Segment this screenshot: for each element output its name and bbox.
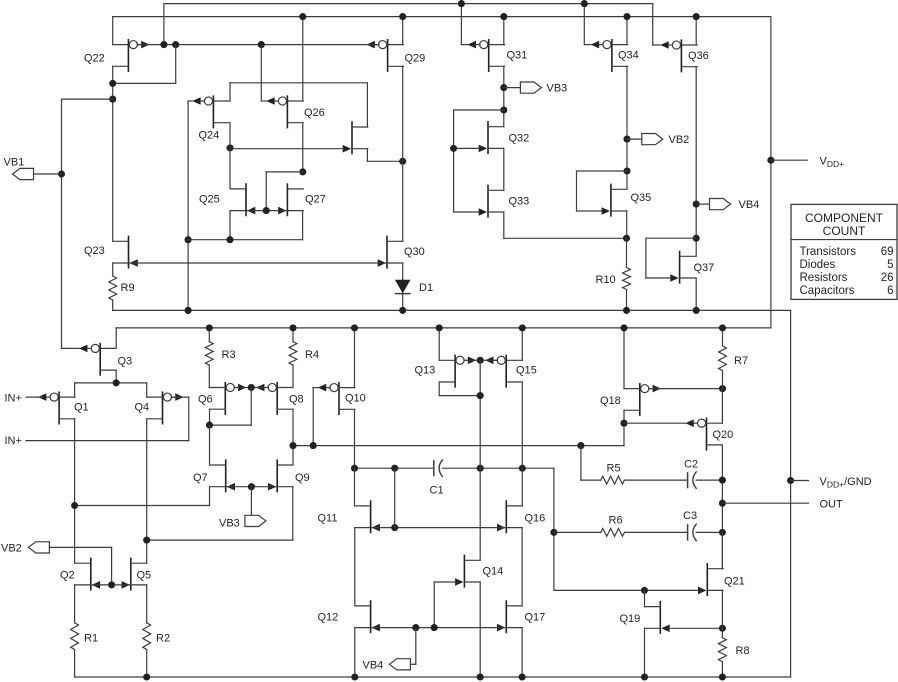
node VB2 tap <box>623 136 630 143</box>
svg-text:Q26: Q26 <box>304 107 325 119</box>
wire Q2-Q5 gate link <box>92 584 130 586</box>
wire Q20 source drop <box>721 445 723 569</box>
terminal VB3 (bottom) <box>245 515 266 526</box>
node Q10 source / C1 row <box>351 465 358 472</box>
node Q14 source / rail <box>477 673 484 680</box>
wire Q35 gate loop top <box>577 170 628 172</box>
node Q37 source / rail <box>693 307 700 314</box>
transistor Q14 <box>455 555 480 586</box>
node VB4 tap <box>693 201 700 208</box>
resistor R2 <box>143 623 151 650</box>
wire Q1 drain column <box>74 419 76 563</box>
node R6 branch <box>550 529 557 536</box>
wire VSS right column <box>790 310 792 677</box>
wire R10 top <box>626 238 628 267</box>
svg-text:R9: R9 <box>121 282 135 294</box>
wire Q35 gate loop vertical <box>576 171 578 211</box>
node Q37 gate branch <box>693 235 700 242</box>
wire Q18 gate line <box>649 388 723 390</box>
wire OUT lead <box>722 502 808 504</box>
svg-text:Q32: Q32 <box>509 133 530 145</box>
node Q22 drain loop tap <box>109 80 116 87</box>
transistor Q36 <box>660 40 697 71</box>
wire Q26 gate riser <box>260 45 262 101</box>
wire Q13 source run <box>439 395 480 397</box>
svg-text:26: 26 <box>881 272 894 284</box>
wire Q18 source riser <box>623 328 625 389</box>
capacitor C2 <box>688 472 697 488</box>
wire C2 to column <box>696 479 722 481</box>
svg-text:5: 5 <box>887 259 893 271</box>
svg-text:Q22: Q22 <box>84 53 105 65</box>
svg-text:Q17: Q17 <box>525 612 546 624</box>
wire Q36 source column <box>695 67 697 257</box>
wire Q37 gate line <box>646 277 671 279</box>
svg-text:R7: R7 <box>734 355 748 367</box>
wire VB2 lead <box>627 138 642 140</box>
node C1 row / Q15 column <box>519 465 526 472</box>
node VDD+/GND tap <box>787 477 794 484</box>
wire C1 row left <box>355 467 434 469</box>
svg-text:R3: R3 <box>222 349 236 361</box>
wire Q11 source drop <box>354 528 356 606</box>
svg-text:Q34: Q34 <box>618 50 639 62</box>
svg-text:Q25: Q25 <box>199 194 220 206</box>
svg-text:VB4: VB4 <box>739 199 760 211</box>
wire top gate bus (line1) <box>164 3 653 5</box>
node Q12 source / rail <box>351 673 358 680</box>
svg-text:VDD+/GND: VDD+/GND <box>820 476 872 490</box>
svg-text:Q12: Q12 <box>318 612 339 624</box>
node Q36 drain / line2 <box>693 13 700 20</box>
wire Q26 source drop <box>302 123 304 172</box>
node VB3 tap <box>500 84 507 91</box>
wire VDD bus (line2) <box>113 16 771 18</box>
transistor Q6 <box>210 383 247 414</box>
wire Q6 source drop <box>209 409 211 425</box>
wire Q4 gate stub <box>171 396 188 398</box>
transistor Q20 <box>685 418 722 449</box>
wire Q27 source drop <box>302 211 304 240</box>
wire Q12 source drop <box>354 628 356 677</box>
wire Q9 drain riser <box>292 446 294 465</box>
transistor Q29 <box>366 40 403 71</box>
wire Q7-Q9 gate link <box>227 486 277 488</box>
resistor R4 <box>289 342 297 365</box>
wire R3 to Q6 drain <box>208 365 210 387</box>
transistor Q15 <box>485 355 522 386</box>
wire Q34 gate stub <box>584 44 591 46</box>
svg-text:Q24: Q24 <box>199 130 220 142</box>
wire T1 source to Q29 column <box>367 160 402 162</box>
transistor Q5 <box>122 558 147 589</box>
node Q24 gate / rail already <box>185 307 192 314</box>
wire D1 to rail <box>402 294 404 311</box>
wire VB2 drop <box>111 547 113 585</box>
svg-text:VB2: VB2 <box>1 543 22 555</box>
transistor Q8 <box>256 383 293 414</box>
wire Q25-Q27 gate link <box>247 210 287 212</box>
node C2 / output column <box>719 477 726 484</box>
resistor R10 <box>623 268 631 290</box>
wire Q26 drain riser <box>302 17 304 101</box>
wire Q21 drain riser <box>721 532 723 568</box>
wire Q36 gate stub <box>653 44 661 46</box>
terminal VB4 (right) <box>710 199 731 210</box>
wire Q20 gate line <box>624 422 686 424</box>
node Q15 drain / VDD rail <box>519 324 526 331</box>
node Q10 drain / VDD rail <box>351 324 358 331</box>
transistor Q13 <box>439 355 476 386</box>
svg-text:R2: R2 <box>156 633 170 645</box>
node Q21 source / Q19 gate / R8 <box>719 625 726 632</box>
wire gate-drop to Q6 source <box>210 424 252 426</box>
wire Q25 source drop <box>229 211 231 240</box>
wire Q20 drain riser <box>721 389 723 424</box>
node R3 / VDD rail <box>206 324 213 331</box>
transistor Q32 <box>479 122 504 153</box>
transistor Q24 <box>192 96 229 127</box>
wire Q10 gate corner <box>313 387 318 389</box>
wire Q7 drain riser <box>209 425 211 465</box>
node Q26 drain / line2 <box>299 13 306 20</box>
wire Q11-Q16 gate line <box>372 527 506 529</box>
svg-text:Q5: Q5 <box>137 570 152 582</box>
wire Q37 source drop <box>695 278 697 310</box>
wire R9 to rail <box>112 300 114 310</box>
wire IN+ lead <box>26 396 42 398</box>
svg-text:Q3: Q3 <box>118 356 133 368</box>
svg-text:Q30: Q30 <box>404 246 425 258</box>
wire Q15 source column <box>521 382 523 506</box>
wire Q30 source to D1 <box>402 263 404 280</box>
node Q19 source / rail <box>641 673 648 680</box>
wire Q24-T bridge <box>230 82 367 84</box>
terminal VB1 <box>13 168 34 179</box>
wire Q29 source column <box>402 66 404 241</box>
wire top-block bottom rail <box>113 309 791 311</box>
wire C3 to column <box>696 531 722 533</box>
svg-text:R4: R4 <box>305 349 319 361</box>
svg-text:D1: D1 <box>419 282 433 294</box>
wire Q8 source drop <box>292 409 294 445</box>
transistor Q16 <box>497 501 522 532</box>
wire Q22 gate-drain loop vertical <box>175 45 177 84</box>
svg-text:C3: C3 <box>683 510 697 522</box>
wire Q35 gate line <box>577 210 603 212</box>
wire Q34 drain riser <box>626 17 628 45</box>
svg-text:C1: C1 <box>430 485 444 497</box>
wire Q33 source drop <box>503 212 505 238</box>
resistor R5 <box>601 476 625 484</box>
node R5 branch / line <box>577 442 584 449</box>
node C3 / output column <box>719 529 726 536</box>
wire Q6/Q8 gate drop <box>250 388 252 426</box>
wire T drain drop <box>366 83 368 127</box>
node Q31 drain / line2 <box>500 13 507 20</box>
wire VDD right column <box>770 17 772 328</box>
svg-text:Q35: Q35 <box>631 192 652 204</box>
wire Q33 gate line <box>454 211 480 213</box>
node gate rail to line1 <box>160 41 167 48</box>
svg-text:Q6: Q6 <box>198 394 213 406</box>
node Q18 source / VDD rail <box>620 324 627 331</box>
node Q17 source / rail <box>519 673 526 680</box>
node Q34 drain / line2 <box>623 13 630 20</box>
svg-text:VDD+: VDD+ <box>820 156 845 170</box>
svg-text:IN+: IN+ <box>5 392 22 404</box>
wire gate branch horizontal <box>454 109 504 111</box>
wire Q10src to Q11 drain <box>354 468 356 506</box>
wire Q31 gate stub <box>461 44 467 46</box>
component count box <box>791 204 897 299</box>
node Q20 gate branch <box>620 420 627 427</box>
wire VB4 lead <box>696 203 709 205</box>
wire diff pair tail <box>75 382 147 384</box>
resistor R9 <box>109 276 117 300</box>
wire Q21 source drop <box>721 590 723 628</box>
wire R8 top stub <box>721 628 723 637</box>
svg-text:Q21: Q21 <box>724 576 745 588</box>
transistor Q18 <box>624 384 661 415</box>
wire Q13 drain riser <box>438 328 440 360</box>
svg-text:C2: C2 <box>684 459 698 471</box>
wire Q33 source run <box>504 237 627 239</box>
node C1 tap / gate line <box>391 524 398 531</box>
resistor R3 <box>205 342 213 365</box>
transistor Q35 <box>602 184 627 215</box>
wire Q19 source drop <box>644 628 646 677</box>
wire R5 to C2 <box>624 479 687 481</box>
wire R6 to C3 <box>624 531 687 533</box>
wire Q35 source drop <box>626 211 628 238</box>
wire VB1 lead <box>34 173 62 175</box>
wire Q4 source riser <box>146 383 148 397</box>
node gate rail to Q22 drain loop <box>172 41 179 48</box>
wire VB1 vertical <box>61 99 63 348</box>
svg-text:Q36: Q36 <box>688 50 709 62</box>
svg-text:69: 69 <box>881 246 894 258</box>
node Q6/Q8 gates <box>248 384 255 391</box>
wire Q26 gate stub <box>261 100 266 102</box>
svg-text:Q8: Q8 <box>289 394 304 406</box>
node Q25 source / tail rail <box>226 236 233 243</box>
wire Q12-Q17 gate line <box>372 627 506 629</box>
node R2 / rail <box>143 673 150 680</box>
svg-text:Q14: Q14 <box>483 566 504 578</box>
wire inner tail rail <box>188 239 303 241</box>
wire Q23-Q30 gate line <box>129 262 386 264</box>
node tail <box>113 379 120 386</box>
wire Q24 gate stub <box>188 100 192 102</box>
svg-text:Q10: Q10 <box>345 393 366 405</box>
wire Q32 source to Q33 drain <box>503 148 505 190</box>
wire R7 top stub <box>722 328 724 346</box>
wire Q3 gate corner <box>62 347 80 349</box>
wire Q29 drain riser <box>402 17 404 45</box>
wire mirror gate horizontal <box>266 171 303 173</box>
node Q26 source / Q27 drain <box>299 168 306 175</box>
wire Q36 gate drop <box>652 4 654 45</box>
svg-text:Q18: Q18 <box>600 395 621 407</box>
wire C1 row corner drop <box>553 468 555 590</box>
wire VB4 drop <box>415 628 417 665</box>
transistor Q12 <box>355 601 380 632</box>
wire Q7 source run <box>75 505 210 507</box>
svg-text:VB4: VB4 <box>363 660 384 672</box>
terminal VB4 (left) <box>389 659 410 670</box>
resistor R1 <box>71 623 79 650</box>
svg-text:OUT: OUT <box>820 498 844 510</box>
transistor Q4 <box>147 392 184 423</box>
node VB4 branch / gate line <box>412 624 419 631</box>
node Q32/Q33 gate branch <box>500 106 507 113</box>
node R8 / rail <box>719 673 726 680</box>
wire Q31 gate riser <box>460 4 462 45</box>
wire Q5 source to R2 <box>146 585 148 623</box>
wire Q24 source drop <box>229 123 231 189</box>
node R10 / bottom rail <box>623 307 630 314</box>
wire Q32/Q33 gate vertical <box>453 110 455 212</box>
transistor Q2 <box>75 558 100 589</box>
transistor Q19 <box>645 602 670 633</box>
wire signal line <box>293 445 624 447</box>
transistor Q23 <box>113 236 138 267</box>
wire Q31 drain riser <box>503 17 505 45</box>
node OUT tap <box>719 500 726 507</box>
transistor Q9 <box>268 460 293 491</box>
svg-text:Q29: Q29 <box>405 53 426 65</box>
svg-text:Q19: Q19 <box>620 613 641 625</box>
wire Q15 drain riser <box>521 328 523 360</box>
wire Q22 gate-drain loop horizontal <box>113 82 176 84</box>
node VDD+ tap <box>767 157 774 164</box>
svg-text:Q31: Q31 <box>507 50 528 62</box>
wire R4 top stub <box>292 328 294 342</box>
wire Q32 gate line <box>454 147 480 149</box>
wire Q3 source drop <box>115 370 117 383</box>
wire Q14 source drop <box>479 582 481 677</box>
wire Q37 gate loop top <box>646 237 696 239</box>
wire R10 bottom <box>626 290 628 311</box>
svg-text:Q23: Q23 <box>84 245 105 257</box>
node Q1 drain / Q7 source <box>71 502 78 509</box>
node Q33/Q35/R10 <box>623 235 630 242</box>
transistor Q30 <box>378 236 403 267</box>
capacitor C3 <box>688 524 697 540</box>
node R7 bottom / Q18 gate <box>719 385 726 392</box>
svg-text:R5: R5 <box>607 463 621 475</box>
node Q24 gate / inner rail <box>185 236 192 243</box>
node Q8src/Q9drain/line <box>289 442 296 449</box>
transistor Q37 <box>670 251 695 282</box>
svg-text:Q13: Q13 <box>415 365 436 377</box>
wire Q36 drain riser <box>695 17 697 45</box>
node Q10 gate / line <box>310 442 317 449</box>
svg-text:VB1: VB1 <box>4 157 25 169</box>
svg-text:VB3: VB3 <box>547 83 568 95</box>
node Q24 source / T1 gate <box>226 144 233 151</box>
wire VB3 lead <box>504 87 521 89</box>
transistor Q25 <box>230 184 255 215</box>
node line1 / Q34 gate <box>581 0 588 7</box>
wire R3 top stub <box>208 328 210 342</box>
wire Q7 source drop <box>209 487 211 506</box>
resistor R6 <box>601 529 625 537</box>
node Q29 drain / line2 <box>399 13 406 20</box>
node R4 / VDD rail <box>289 324 296 331</box>
svg-text:Q27: Q27 <box>305 194 326 206</box>
wire Q19 drain riser <box>644 590 646 606</box>
wire Q3 drain riser <box>115 328 117 349</box>
node C1 row / Q13 column <box>477 465 484 472</box>
transistor T1 (unlabeled) <box>343 122 368 153</box>
svg-text:Q37: Q37 <box>694 262 715 274</box>
wire R5 left stub <box>581 479 601 481</box>
wire R1 to rail <box>74 650 76 678</box>
node D1 / bottom rail <box>399 307 406 314</box>
wire R8 to rail <box>721 662 723 677</box>
wire VDD+/GND lead <box>791 480 809 482</box>
wire Q6-Q8 gate link <box>234 387 268 389</box>
svg-text:6: 6 <box>887 285 893 297</box>
svg-text:Q11: Q11 <box>318 513 338 525</box>
node line1 / Q31 gate <box>458 0 465 7</box>
svg-text:Capacitors: Capacitors <box>800 285 855 297</box>
svg-text:COUNT: COUNT <box>823 224 866 238</box>
node Q35 gate branch <box>623 167 630 174</box>
svg-text:R1: R1 <box>84 633 98 645</box>
transistor Q26 <box>266 96 303 127</box>
svg-text:R10: R10 <box>596 274 616 286</box>
wire Q1 source riser <box>74 383 76 397</box>
wire bottom-block VDD rail <box>116 327 771 329</box>
wire Q21 gate line <box>554 589 699 591</box>
wire Q22 drain riser <box>112 17 114 45</box>
wire R4 to Q8 drain <box>292 365 294 387</box>
svg-text:Q33: Q33 <box>509 196 530 208</box>
node gate rail to Q26 gate <box>258 41 265 48</box>
node Q13 drain / VDD rail <box>436 324 443 331</box>
wire T1 source drop <box>366 149 368 162</box>
svg-text:VB3: VB3 <box>219 518 240 530</box>
wire Q9 source drop <box>292 487 294 540</box>
transistor Q22 <box>113 40 150 71</box>
wire R2 to rail <box>146 650 148 678</box>
svg-text:Diodes: Diodes <box>800 259 836 271</box>
wire Q22 source drop <box>112 66 114 241</box>
terminal VB3 (top) <box>520 82 541 93</box>
svg-text:Q20: Q20 <box>713 429 734 441</box>
svg-text:IN+: IN+ <box>5 435 22 447</box>
wire Q10 drain riser <box>354 328 356 388</box>
wire Q24 drain riser <box>229 83 231 101</box>
wire Q24 gate drop <box>187 101 189 310</box>
wire Q37 gate loop vertical <box>645 238 647 278</box>
wire C1 row right <box>442 467 554 469</box>
wire Q9 source run <box>147 539 293 541</box>
wire Q34 source column <box>626 66 628 189</box>
node Q32 gate tap <box>450 145 457 152</box>
wire Q10 gate drop <box>312 388 314 446</box>
transistor Q33 <box>479 185 504 216</box>
wire Q2 source to R1 <box>74 585 76 623</box>
node T1 source / Q29 source <box>399 158 406 165</box>
wire Q23 source to R9 <box>112 263 114 276</box>
node VB1 tap <box>58 170 65 177</box>
node Q25/Q27 gates <box>263 207 270 214</box>
wire mirror gate vertical <box>265 172 267 211</box>
